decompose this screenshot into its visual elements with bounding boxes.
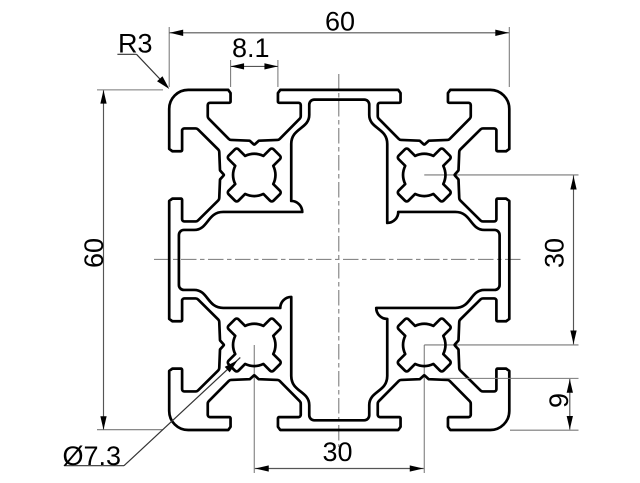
svg-text:8.1: 8.1 <box>232 33 270 63</box>
dimension 60 top: dimension line with arrows <box>169 30 509 36</box>
dimension 30 bottom: label <box>322 437 352 467</box>
lower-right screw-boss core hole <box>398 319 451 372</box>
leader diameter 7.3 to boss core <box>64 358 240 466</box>
dimension 60 left: label <box>79 238 109 268</box>
svg-text:Ø7.3: Ø7.3 <box>63 441 122 471</box>
outer profile contour with T-slots <box>169 90 509 430</box>
extension line from lower-right boss centre down <box>423 345 425 473</box>
dimension 9: extension lines <box>442 378 579 430</box>
dimension 30 right: dimension line with arrows <box>570 175 576 344</box>
dimension 8.1: extension lines <box>231 60 278 87</box>
svg-text:30: 30 <box>322 437 352 467</box>
extension line from lower-left boss centre down <box>253 345 255 473</box>
upper-right screw-boss core hole <box>398 149 451 202</box>
horizontal centerline <box>154 258 523 260</box>
label R3 <box>118 29 153 59</box>
vertical centerline <box>338 74 340 447</box>
extension line from lower-right boss centre right <box>424 344 578 346</box>
svg-text:9: 9 <box>544 393 574 408</box>
leader R3 to corner radius <box>117 54 169 89</box>
label diameter 7.3 <box>63 441 122 471</box>
dimension 30 right: label <box>540 238 570 268</box>
upper-left screw-boss core hole <box>228 149 281 202</box>
dimension 9: label <box>544 393 574 408</box>
dimension 8.1: label <box>232 33 270 63</box>
centre cross cavity <box>179 100 500 421</box>
lower-left screw-boss core hole <box>228 319 281 372</box>
dimension 30 bottom: dimension line with arrows <box>255 465 424 471</box>
dimension 60 top: extension lines <box>169 27 509 87</box>
svg-text:60: 60 <box>79 238 109 268</box>
extension line from upper-right boss centre right <box>424 174 578 176</box>
dimension 60 left: extension lines <box>97 90 163 430</box>
dimension 9: dimension line with arrows <box>567 379 573 430</box>
svg-text:R3: R3 <box>118 29 153 59</box>
svg-text:30: 30 <box>540 238 570 268</box>
dimension 60 top: label <box>325 6 355 36</box>
dimension 60 left: dimension line with arrows <box>100 90 106 430</box>
svg-text:60: 60 <box>325 6 355 36</box>
dimension 8.1: dimension line with arrows <box>231 63 278 69</box>
